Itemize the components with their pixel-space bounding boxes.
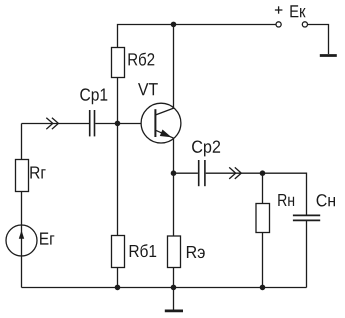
wire input (left horizontal) bbox=[22, 123, 90, 125]
resistor Rн bbox=[256, 173, 270, 287]
wire Rб2 bottom to base node bbox=[117, 78, 119, 124]
wire emitter node to Ср2 bbox=[174, 172, 198, 174]
label Rг bbox=[30, 166, 45, 178]
wire Rэ to bottom rail bbox=[173, 268, 175, 288]
wire base node down to Rб1 bbox=[117, 124, 119, 236]
wire Ег to bottom rail bbox=[21, 256, 23, 288]
node bottom rail at Rн bbox=[260, 285, 266, 291]
wire output node to right column bbox=[263, 173, 307, 214]
terminal left of +Ek bbox=[276, 22, 281, 27]
wire bottom rail bbox=[22, 287, 307, 289]
capacitor Сн bbox=[293, 215, 320, 220]
signal direction chevron (output) bbox=[229, 167, 241, 179]
node output junction bbox=[260, 170, 266, 176]
wire Сн to bottom rail bbox=[306, 221, 308, 288]
label Сн bbox=[317, 194, 335, 206]
transistor VT bbox=[141, 103, 181, 143]
wire Rг to source Ег bbox=[21, 192, 23, 226]
ground (top right) bbox=[320, 54, 337, 57]
label Ср1 bbox=[80, 88, 107, 104]
node bottom rail at ground bbox=[171, 285, 177, 291]
terminal right of +Ek bbox=[302, 22, 307, 27]
wire Rб1 to bottom rail bbox=[117, 268, 119, 288]
node base junction bbox=[115, 121, 121, 127]
label Rн bbox=[278, 194, 294, 206]
label Ср2 bbox=[192, 140, 220, 156]
resistor Rэ bbox=[168, 236, 181, 268]
resistor Rг bbox=[16, 160, 29, 192]
node top rail / collector junction bbox=[171, 22, 177, 28]
wire top rail bbox=[118, 25, 277, 48]
label Rэ bbox=[187, 246, 205, 258]
label Rб2 bbox=[129, 53, 155, 66]
node emitter junction bbox=[171, 170, 177, 176]
label Ек bbox=[290, 5, 305, 17]
wire +Ek terminal to top-right ground bbox=[308, 25, 329, 55]
capacitor Ср2 bbox=[199, 160, 205, 186]
ground (bottom) bbox=[165, 288, 183, 311]
wire Ср1 to transistor base bbox=[95, 123, 141, 125]
wire collector bbox=[173, 25, 175, 109]
label VT bbox=[138, 83, 158, 95]
label + (plus of +Ek) bbox=[275, 6, 283, 13]
source Ег bbox=[6, 225, 37, 256]
wire emitter down to Rэ bbox=[173, 138, 175, 236]
signal direction chevron (input) bbox=[46, 118, 58, 130]
wire left column input to Rг bbox=[21, 124, 23, 160]
label Ег bbox=[40, 233, 54, 245]
wire Ср2 to output node bbox=[206, 172, 263, 174]
capacitor Ср1 bbox=[90, 110, 95, 136]
label Rб1 bbox=[130, 244, 157, 257]
resistor Rб2 bbox=[112, 48, 125, 78]
node bottom rail at Rб1 bbox=[115, 285, 121, 291]
resistor Rб1 bbox=[112, 236, 125, 268]
